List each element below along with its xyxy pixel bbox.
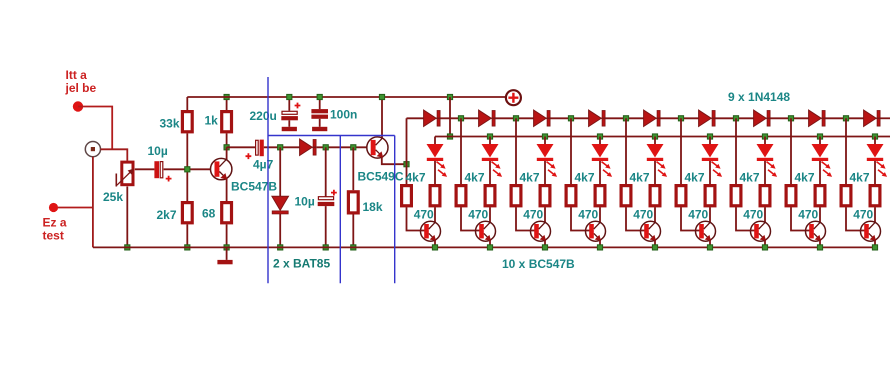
wire LED to 4k7 stage 8 — [819, 161, 821, 184]
wire BAT85 vertical top stub — [279, 147, 281, 196]
junction emitter-ground stage 2 — [487, 245, 492, 250]
junction emitter-ground stage 9 — [872, 245, 877, 250]
selection box line vertical 3 — [394, 136, 396, 284]
junction emitter-ground — [224, 245, 229, 250]
transistor Q9 BC547B — [751, 221, 771, 241]
wire R6 to Q3 base — [407, 207, 425, 230]
connector J1 (input jack) — [85, 142, 100, 157]
wire 470 to next base stage 7 — [791, 207, 811, 230]
svg-text:9 x 1N4148: 9 x 1N4148 — [728, 90, 790, 104]
junction 10u2 tap — [323, 145, 328, 150]
wire 2k7 to ground rail — [186, 224, 188, 247]
resistor 470 stage 5 — [676, 186, 686, 206]
svg-text:33k: 33k — [160, 117, 180, 131]
transistor Q3 BC547B — [421, 221, 441, 241]
junction 18k tap — [351, 145, 356, 150]
svg-text:4k7: 4k7 — [795, 171, 815, 185]
resistor R3 1k — [222, 112, 232, 132]
wire diode chain segment 8 — [825, 117, 863, 119]
LED1 (red) — [427, 144, 448, 177]
svg-text:470: 470 — [853, 208, 873, 222]
junction 2k7-ground — [185, 245, 190, 250]
plus mark of C1 — [166, 176, 172, 182]
svg-text:test: test — [43, 229, 64, 243]
junction emitter-ground stage 3 — [542, 245, 547, 250]
wire top rail corner to 33k — [186, 97, 188, 110]
transistor Q2 BC549C — [367, 137, 388, 158]
svg-text:2k7: 2k7 — [157, 208, 177, 222]
wire tap down to 470 stage 3 — [570, 118, 572, 184]
junction base node A — [185, 167, 190, 172]
junction emitter-ground stage 5 — [652, 245, 657, 250]
wire emitter to ground rail stage 6 — [709, 240, 711, 247]
junction LED rail stage 2 — [487, 134, 492, 139]
resistor 4k7 stage 5 — [650, 186, 660, 206]
transistor Q4 BC547B — [476, 221, 496, 241]
diode D11 1N4148 — [864, 110, 881, 126]
wire LED to 4k7 stage 2 — [489, 161, 491, 184]
transistor Q10 BC547B — [806, 221, 826, 241]
junction LED rail stage 6 — [707, 134, 712, 139]
svg-text:4µ7: 4µ7 — [253, 158, 274, 172]
wire LED supply rail — [435, 136, 890, 138]
LED2 (red) — [482, 144, 503, 177]
LED3 (red) — [537, 144, 558, 177]
junction diode tap stage 8 — [843, 116, 848, 121]
transistor Q8 BC547B — [696, 221, 716, 241]
transistor Q6 BC547B — [586, 221, 606, 241]
resistor 470 stage 1 — [456, 186, 466, 206]
ground symbol GND3 — [312, 127, 327, 131]
wire LED to 4k7 stage 7 — [764, 161, 766, 184]
wire 18k top stub — [352, 147, 354, 190]
svg-text:100n: 100n — [330, 108, 357, 122]
wire LED stub stage 8 — [819, 137, 821, 145]
capacitor C4 4&#181;7 (electrolytic) — [256, 140, 264, 157]
capacitor C3 100n — [311, 109, 328, 119]
wire emitter to ground rail stage 9 — [874, 240, 876, 247]
wire diode chain to edge — [880, 117, 890, 119]
wire collector node into Q1 — [226, 147, 228, 159]
svg-text:4k7: 4k7 — [685, 171, 705, 185]
wire 470 to next base stage 5 — [681, 207, 701, 230]
LED4 (red) — [592, 144, 613, 177]
wire LED stub stage 4 — [599, 137, 601, 145]
diode D10 1N4148 — [809, 110, 826, 126]
svg-text:4k7: 4k7 — [850, 171, 870, 185]
power symbol +supply — [506, 90, 521, 105]
wire C5 to ground rail — [325, 206, 327, 247]
wire 10u2 top stub — [325, 147, 327, 196]
junction C5-ground — [323, 245, 328, 250]
wire LED stub stage 3 — [544, 137, 546, 145]
svg-text:470: 470 — [633, 208, 653, 222]
wire D1 to BC549C base — [317, 146, 367, 148]
diode D9 1N4148 — [754, 110, 771, 126]
wire pot bottom to ground rail — [126, 187, 128, 248]
wire 100n to ground — [319, 119, 321, 127]
resistor 470 stage 3 — [566, 186, 576, 206]
svg-text:4k7: 4k7 — [465, 171, 485, 185]
junction emitter-ground stage 7 — [762, 245, 767, 250]
svg-text:470: 470 — [414, 208, 434, 222]
svg-text:2 x BAT85: 2 x BAT85 — [273, 257, 330, 271]
wire 4k7 to collector stage 9 — [874, 207, 876, 222]
svg-text:10µ: 10µ — [148, 144, 168, 158]
wire 1k top stub — [226, 97, 228, 110]
wire LED stub stage 2 — [489, 137, 491, 145]
capacitor C1 10&#181; (electrolytic) — [154, 161, 162, 178]
plus mark of C4 — [246, 153, 252, 159]
wire 33k to base junction and 2k7 — [186, 133, 188, 201]
wire 4k7 to collector stage 3 — [544, 207, 546, 222]
resistor 4k7 stage 2 — [485, 186, 495, 206]
resistor R6 4k7 (stage 1 base) — [402, 186, 412, 206]
svg-text:10µ: 10µ — [295, 195, 315, 209]
diode D5 1N4148 — [534, 110, 551, 126]
wire LED to 4k7 stage 3 — [544, 161, 546, 184]
selection box line horizontal — [268, 135, 395, 137]
resistor 470 stage 4 — [621, 186, 631, 206]
ground symbol GND1 — [217, 260, 232, 264]
diode D1 BAT85 — [300, 139, 317, 155]
resistor 4k7 stage 3 — [540, 186, 550, 206]
svg-text:470: 470 — [578, 208, 598, 222]
junction emitter-ground stage 4 — [597, 245, 602, 250]
junction diode tap stage 7 — [788, 116, 793, 121]
plus mark of C2 — [295, 103, 301, 109]
wire tap down to 470 stage 7 — [790, 118, 792, 184]
svg-text:470: 470 — [468, 208, 488, 222]
svg-text:Itt a: Itt a — [66, 68, 88, 82]
wire connector to pot top — [101, 149, 128, 161]
capacitor C2 220u (electrolytic) — [281, 111, 298, 120]
wire 18k to ground rail — [352, 215, 354, 248]
junction diode tap stage 5 — [678, 116, 683, 121]
junction LED rail stage 4 — [597, 134, 602, 139]
svg-text:4k7: 4k7 — [630, 171, 650, 185]
LED5 (red) — [647, 144, 668, 177]
wire 220u top stem — [288, 97, 290, 111]
wire 100n top stem — [319, 97, 321, 109]
junction 18k-ground — [351, 245, 356, 250]
wire diode chain segment 3 — [550, 117, 588, 119]
wire emitter to ground rail stage 8 — [819, 240, 821, 247]
junction collector node Q1 — [224, 145, 229, 150]
wire C1 to base node — [164, 168, 211, 170]
resistor 4k7 stage 6 — [705, 186, 715, 206]
junction pot-ground — [125, 245, 130, 250]
svg-text:4k7: 4k7 — [575, 171, 595, 185]
junction 220u top — [287, 94, 292, 99]
diode D3 1N4148 — [424, 110, 441, 126]
wire tap down to 470 stage 4 — [625, 118, 627, 184]
wire tap down to 470 stage 8 — [845, 118, 847, 184]
svg-text:BC549C: BC549C — [358, 170, 404, 184]
wire diode chain segment 2 — [495, 117, 533, 119]
wire emitter to ground rail stage 7 — [764, 240, 766, 247]
svg-text:25k: 25k — [103, 190, 123, 204]
wire 4k7 to collector stage 8 — [819, 207, 821, 222]
wire emitter to ground rail stage 3 — [544, 240, 546, 247]
wire LED stub stage 9 — [874, 137, 876, 145]
ground symbol GND2 — [282, 127, 297, 131]
junction BAT85 tap — [278, 145, 283, 150]
wire LED stub stage 6 — [709, 137, 711, 145]
wire 470 to next base stage 6 — [736, 207, 756, 230]
wire D2 to ground rail — [279, 214, 281, 248]
wire 4k7 to collector stage 5 — [654, 207, 656, 222]
wire LED to 4k7 stage 5 — [654, 161, 656, 184]
junction LED rail stage 9 — [872, 134, 877, 139]
wire LED to 4k7 stage 6 — [709, 161, 711, 184]
diode D7 1N4148 — [644, 110, 661, 126]
wire diode chain segment 6 — [715, 117, 753, 119]
selection box line vertical 2 — [339, 136, 341, 284]
svg-text:4k7: 4k7 — [406, 171, 426, 185]
wire feed from top rail to LED rail — [449, 97, 451, 137]
transistor Q7 BC547B — [641, 221, 661, 241]
junction LED rail stage 8 — [817, 134, 822, 139]
svg-text:470: 470 — [688, 208, 708, 222]
wire 68 to ground rail — [226, 224, 228, 247]
wire LED to 4k7 stage 1 — [434, 161, 436, 184]
resistor 470 stage 2 — [511, 186, 521, 206]
wire LED stub stage 5 — [654, 137, 656, 145]
svg-text:BC547B: BC547B — [231, 180, 277, 194]
svg-text:jel be: jel be — [65, 81, 97, 95]
junction 100n top — [317, 94, 322, 99]
wire tap down to 470 stage 1 — [460, 118, 462, 184]
junction D2-ground — [278, 245, 283, 250]
wire Q2 collector stub — [381, 97, 383, 138]
resistor 4k7 stage 7 — [760, 186, 770, 206]
junction 1k top rail — [224, 94, 229, 99]
wire 1k to collector node — [226, 133, 228, 147]
svg-text:4k7: 4k7 — [740, 171, 760, 185]
junction diode tap stage 3 — [568, 116, 573, 121]
wire tap down to 470 stage 6 — [735, 118, 737, 184]
LED8 (red) — [812, 144, 833, 177]
wire 4k7 to collector stage 7 — [764, 207, 766, 222]
wire 4k7 to collector stage 2 — [489, 207, 491, 222]
wire 4k7 to collector stage 4 — [599, 207, 601, 222]
wire 4k7 to collector stage 6 — [709, 207, 711, 222]
wire top supply rail — [187, 96, 506, 98]
diode D8 1N4148 — [699, 110, 716, 126]
transistor Q1 BC547B — [211, 158, 232, 179]
wire diode chain segment 5 — [660, 117, 698, 119]
wire C4 to D1 — [264, 146, 300, 148]
svg-text:470: 470 — [523, 208, 543, 222]
wire 470 to next base stage 3 — [571, 207, 591, 230]
svg-text:470: 470 — [743, 208, 763, 222]
wire LED to 4k7 stage 9 — [874, 161, 876, 184]
junction Q2 collector rail — [379, 94, 384, 99]
junction diode tap stage 1 — [458, 116, 463, 121]
potentiometer P1 25k — [116, 162, 134, 186]
junction emitter-ground stage 6 — [707, 245, 712, 250]
resistor R1 33k — [182, 112, 192, 132]
resistor 4k7 stage 8 — [815, 186, 825, 206]
wire 470 to next base stage 1 — [461, 207, 481, 230]
wire diode chain segment 7 — [770, 117, 808, 119]
svg-text:18k: 18k — [363, 200, 383, 214]
junction emitter-ground stage 1 — [432, 245, 437, 250]
LED7 (red) — [757, 144, 778, 177]
test point dot "Itt a jel be" — [73, 101, 83, 111]
wire emitter to ground rail stage 2 — [489, 240, 491, 247]
resistor R5 18k — [348, 192, 358, 213]
wire Q1 emitter to 68 — [226, 179, 228, 202]
resistor 4k7 stage 4 — [595, 186, 605, 206]
resistor 470 stage 8 — [841, 186, 851, 206]
wire diode chain segment 1 — [440, 117, 478, 119]
junction feed LED rail — [447, 134, 452, 139]
svg-text:1k: 1k — [205, 114, 219, 128]
junction diode tap stage 6 — [733, 116, 738, 121]
wire 220u to ground — [288, 120, 290, 127]
resistor 470 stage 7 — [786, 186, 796, 206]
junction Q2 emitter node — [404, 162, 409, 167]
wire emitter to ground rail stage 5 — [654, 240, 656, 247]
test point dot "Ez a test" — [49, 203, 58, 212]
wire LED stub stage 7 — [764, 137, 766, 145]
junction LED rail stage 3 — [542, 134, 547, 139]
wire emitter to ground rail stage 1 — [434, 240, 436, 247]
wire LED stub stage 1 — [434, 137, 436, 145]
plus mark of C5 — [331, 190, 337, 196]
wire ground rail — [93, 246, 875, 248]
resistor R2 2k7 — [182, 203, 192, 223]
wire from input dot to connector column — [78, 107, 112, 150]
junction emitter-ground stage 8 — [817, 245, 822, 250]
svg-text:470: 470 — [798, 208, 818, 222]
LED9 (red) — [867, 144, 888, 177]
diode D6 1N4148 — [589, 110, 606, 126]
transistor Q5 BC547B — [531, 221, 551, 241]
resistor 470 stage 6 — [731, 186, 741, 206]
resistor R4 68 — [222, 203, 232, 223]
wire tap down to 470 stage 5 — [680, 118, 682, 184]
wire emitter node to first 4k7 — [406, 164, 408, 184]
junction LED rail stage 5 — [652, 134, 657, 139]
svg-text:4k7: 4k7 — [520, 171, 540, 185]
capacitor C5 10&#181; (electrolytic) — [318, 197, 335, 206]
diode D2 BAT85 — [272, 196, 289, 214]
wire connector sleeve down to ground rail — [92, 157, 94, 248]
wire 470 to next base stage 4 — [626, 207, 646, 230]
junction diode tap stage 4 — [623, 116, 628, 121]
svg-text:10 x BC547B: 10 x BC547B — [502, 257, 575, 271]
wire Q2 emitter path — [382, 157, 407, 164]
transistor Q11 BC547B — [861, 221, 881, 241]
wire 470 to next base stage 2 — [516, 207, 536, 230]
LED6 (red) — [702, 144, 723, 177]
diode D4 1N4148 — [479, 110, 496, 126]
wire 470 to next base stage 8 — [846, 207, 866, 230]
wire tap down to 470 stage 2 — [515, 118, 517, 184]
junction LED rail stage 7 — [762, 134, 767, 139]
wire emitter to ground rail stage 4 — [599, 240, 601, 247]
svg-text:220u: 220u — [250, 109, 277, 123]
wire from test dot to ground column — [58, 207, 93, 209]
wire ground stub — [226, 247, 228, 260]
wire LED to 4k7 stage 4 — [599, 161, 601, 184]
wire 4k7 to collector stage 1 — [434, 207, 436, 222]
wire pot wiper to C1 — [135, 168, 155, 170]
selection box line vertical 1 — [267, 77, 269, 283]
svg-text:68: 68 — [202, 207, 216, 221]
wire collector node to C4 — [227, 146, 256, 148]
wire emitter node riser to diode chain — [407, 118, 424, 164]
svg-text:Ez a: Ez a — [43, 216, 67, 230]
junction feed top rail — [447, 94, 452, 99]
resistor 4k7 stage 9 — [870, 186, 880, 206]
resistor 4k7 stage 1 — [430, 186, 440, 206]
junction diode tap stage 2 — [513, 116, 518, 121]
wire diode chain segment 4 — [605, 117, 643, 119]
